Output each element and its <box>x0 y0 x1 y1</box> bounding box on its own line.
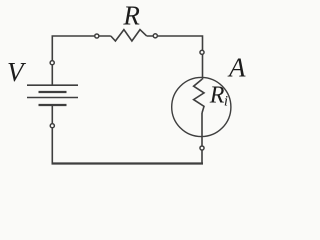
battery V: long plate top <box>27 84 78 86</box>
ammeter U1 circle <box>172 77 231 136</box>
battery V: short plate 1 <box>39 91 67 93</box>
wire: bottom return <box>52 162 204 164</box>
terminal node: resistor R left <box>95 34 99 38</box>
svg-text:A: A <box>227 52 246 82</box>
wire: left branch bottom (corner up to battery) <box>51 105 53 164</box>
battery V: long plate bottom <box>27 97 78 99</box>
terminal node: left wire below battery <box>50 124 54 128</box>
wire: resistor right lead to top-right corner down to ammeter top <box>147 36 203 80</box>
wire: left branch top (battery top to top-left corner to resistor left lead) <box>52 36 111 85</box>
terminal node: left wire above battery <box>50 61 54 65</box>
svg-text:R: R <box>122 0 140 30</box>
resistor Ri (inside ammeter) <box>194 79 204 113</box>
battery V: short plate 2 <box>39 104 67 106</box>
terminal node: right wire above ammeter <box>200 50 204 54</box>
resistor R <box>111 30 147 41</box>
wire: ammeter bottom to bottom-right corner, bottom wire, up to battery bottom <box>201 113 203 163</box>
terminal node: right wire below ammeter <box>200 146 204 150</box>
terminal node: resistor R right <box>153 34 157 38</box>
